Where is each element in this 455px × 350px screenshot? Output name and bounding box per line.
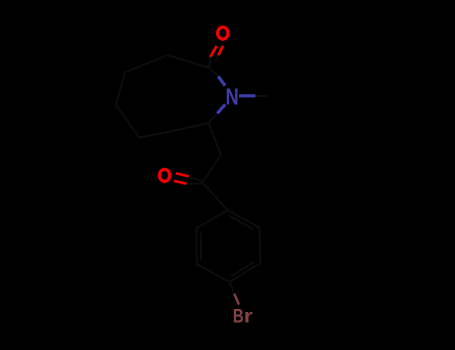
phenyl aromatic inner line P1=P2 (229, 216, 253, 229)
lactam C=O double bond red half (two strokes) (210, 46, 223, 57)
carbocycle ring path V1-V2-V3-V4-V5 (116, 55, 173, 138)
wire Cket-ipso (203, 183, 228, 211)
wire N-CH3 (carbon half, dark) (255, 95, 267, 97)
ketone C=O double bond red half (two strokes) (174, 173, 189, 183)
wire C1=O1 dark continuation main line (209, 57, 212, 68)
wire Cket=O2 dark continuation lower (187, 183, 203, 185)
wire N to C1 blue half (218, 76, 225, 85)
N bonds blue halves (217, 76, 255, 113)
phenyl aromatic inner line P5=P6 (200, 233, 202, 260)
wire C1 to ring vertex V1 (168, 55, 210, 68)
wire C1 to N (carbon half, dark) (210, 68, 219, 76)
svg-text:B: B (233, 307, 244, 328)
wire Cket=O2 dark continuation upper (189, 176, 203, 181)
wire C3-CH2 (209, 123, 222, 155)
wire para-C to Br (carbon half, dark) (230, 282, 235, 294)
wire V5-C3 (173, 123, 209, 131)
phenyl ring (4-bromophenyl) (196, 210, 260, 282)
wire C1=O1 dark continuation offset line (216, 55, 219, 61)
wire N to C3 blue half (217, 104, 225, 113)
wire N to CH3 blue half (239, 94, 255, 97)
wire N-C3 (carbon half, dark) (209, 113, 218, 123)
C-Br bond brown half (234, 294, 239, 305)
svg-text:N: N (226, 84, 239, 110)
atom label O (lactam oxygen) (218, 27, 228, 39)
wire CH2-Cket (203, 155, 222, 183)
atom label O (ketone oxygen) (159, 169, 169, 181)
phenyl aromatic inner line P3=P4 (231, 262, 255, 276)
svg-text:r: r (244, 307, 254, 328)
